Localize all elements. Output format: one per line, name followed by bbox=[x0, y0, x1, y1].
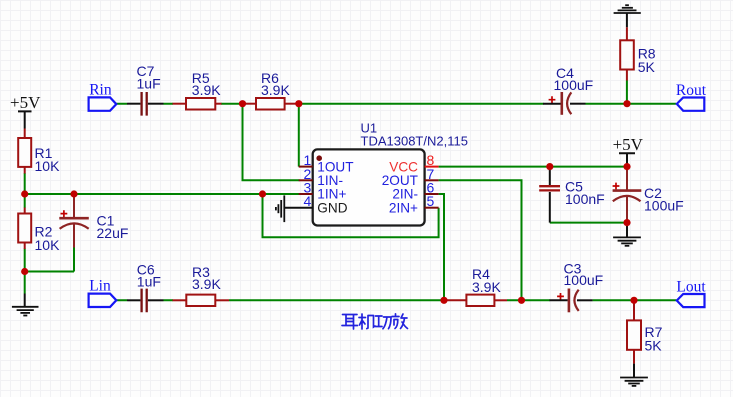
svg-text:Rout: Rout bbox=[676, 82, 707, 99]
svg-text:5K: 5K bbox=[645, 337, 663, 353]
resistor R4 3.9K bbox=[444, 266, 507, 306]
wire pin6 2IN- down to R4 left bbox=[439, 194, 444, 300]
svg-text:5: 5 bbox=[427, 193, 435, 209]
ground below C2 bbox=[613, 223, 641, 246]
svg-text:3.9K: 3.9K bbox=[472, 279, 501, 295]
resistor R6 3.9K bbox=[243, 70, 299, 110]
svg-text:3.9K: 3.9K bbox=[261, 82, 290, 98]
U1 pin 2 bbox=[299, 166, 343, 188]
U1 pin 6 bbox=[392, 180, 438, 202]
text label 耳机功放 drawn strokes bbox=[342, 314, 408, 329]
svg-text:4: 4 bbox=[304, 193, 312, 209]
svg-text:GND: GND bbox=[317, 200, 347, 215]
ground at U1 pin 4 bbox=[276, 195, 284, 222]
wire bottom signal rail y=300.3 segments bbox=[116, 299, 676, 301]
svg-text:3.9K: 3.9K bbox=[192, 82, 221, 98]
port Lout bbox=[676, 278, 706, 307]
resistor R8 5K bbox=[620, 27, 656, 80]
op-amp U1 TDA1308T body bbox=[313, 121, 468, 226]
U1 pin 1 bbox=[299, 152, 354, 174]
wire top signal rail y=103.7 segments bbox=[116, 103, 676, 105]
U1 pin 8 VCC bbox=[389, 152, 438, 174]
svg-text:Rin: Rin bbox=[89, 82, 112, 99]
port Lin bbox=[89, 278, 117, 307]
U1 pin 5 bbox=[389, 193, 439, 215]
capacitor C6 1uF bbox=[127, 261, 164, 312]
wire C5/C2 bottom rail y=222.6 bbox=[550, 222, 627, 224]
wire pin7 2OUT down to R4 right bbox=[439, 180, 522, 300]
svg-text:22uF: 22uF bbox=[97, 225, 129, 241]
resistor R1 10K bbox=[18, 129, 60, 175]
wire R6 junction down to pin1 bbox=[298, 104, 300, 167]
capacitor C7 1uF bbox=[127, 63, 164, 115]
svg-text:100nF: 100nF bbox=[565, 191, 605, 207]
svg-text:Lout: Lout bbox=[676, 278, 706, 295]
svg-text:1uF: 1uF bbox=[137, 273, 161, 289]
ground below R7 bbox=[620, 364, 648, 386]
port Rin bbox=[89, 82, 117, 111]
svg-text:10K: 10K bbox=[35, 237, 61, 253]
power +5V left bbox=[10, 93, 41, 129]
svg-text:100uF: 100uF bbox=[644, 197, 684, 213]
capacitor C5 100nF bbox=[539, 167, 605, 223]
svg-text:1uF: 1uF bbox=[137, 76, 161, 92]
wire bias rail y=194 from R1/R2 divider to pin3 bbox=[25, 193, 300, 195]
capacitor C4 100uF polarized bbox=[543, 65, 593, 115]
capacitor C2 100uF polarized bbox=[613, 167, 684, 223]
capacitor C3 100uF polarized bbox=[550, 260, 604, 312]
svg-text:100uF: 100uF bbox=[554, 77, 594, 93]
U1 pin 4 GND bbox=[284, 193, 347, 215]
resistor R2 10K bbox=[18, 208, 60, 253]
capacitor C1 22uF polarized bbox=[59, 194, 128, 248]
svg-text:TDA1308T/N2,115: TDA1308T/N2,115 bbox=[361, 133, 468, 148]
port Rout bbox=[676, 82, 707, 111]
resistor R7 5K bbox=[627, 300, 663, 363]
wire R8 bottom to output rail bbox=[626, 81, 628, 104]
resistor R3 3.9K bbox=[173, 264, 230, 306]
power +5V right bbox=[613, 135, 644, 167]
U1 pin 3 bbox=[299, 180, 347, 202]
U1 pin 7 bbox=[382, 166, 439, 188]
wire R5/R6 junction down to pin2 bbox=[243, 104, 300, 181]
svg-text:10K: 10K bbox=[35, 158, 61, 174]
ground above R8 bbox=[614, 5, 641, 27]
svg-text:+5V: +5V bbox=[10, 93, 41, 112]
svg-text:3.9K: 3.9K bbox=[192, 276, 221, 292]
svg-text:+5V: +5V bbox=[613, 135, 644, 154]
svg-text:5K: 5K bbox=[638, 59, 656, 75]
wire VCC rail y=166.6 pin8 to +5V bbox=[439, 166, 627, 168]
svg-text:Lin: Lin bbox=[89, 278, 111, 295]
wire pin5 2IN+ loop to bias rail bbox=[263, 194, 439, 237]
ground below R2 bbox=[12, 294, 39, 316]
resistor R5 3.9K bbox=[173, 70, 222, 110]
svg-text:100uF: 100uF bbox=[564, 272, 604, 288]
wire left column verticals bbox=[25, 173, 74, 294]
svg-text:2IN+: 2IN+ bbox=[389, 200, 418, 215]
